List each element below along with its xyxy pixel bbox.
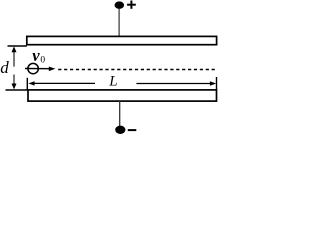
riser at right end of bottom plate — [216, 77, 218, 90]
extension line left of top plate — [8, 45, 27, 47]
dimension L: right arrow — [136, 83, 211, 85]
svg-text:L: L — [108, 74, 117, 90]
terminal - (bottom) — [115, 126, 125, 134]
velocity arrow through charge — [25, 68, 51, 70]
dimension d: up arrow — [13, 49, 15, 67]
charge (circled minus), negative particle — [28, 63, 38, 73]
riser at left end of bottom plate — [26, 78, 28, 90]
bottom plate (lower deflection plate) — [28, 90, 217, 101]
top plate (upper deflection plate) — [27, 36, 217, 44]
wire from bottom plate to bottom terminal — [119, 101, 121, 127]
label - — [128, 129, 137, 131]
dashed center line (trajectory axis) — [58, 69, 216, 71]
label + — [127, 4, 136, 6]
svg-text:v: v — [32, 46, 40, 65]
wire from top terminal to top plate — [118, 6, 120, 36]
dimension d: down arrow — [13, 75, 15, 87]
svg-text:d: d — [0, 58, 9, 77]
terminal + (top) — [115, 1, 125, 8]
extension line left of bottom plate — [6, 89, 28, 91]
svg-text:0: 0 — [40, 56, 45, 66]
dimension L: left arrow — [28, 81, 34, 85]
